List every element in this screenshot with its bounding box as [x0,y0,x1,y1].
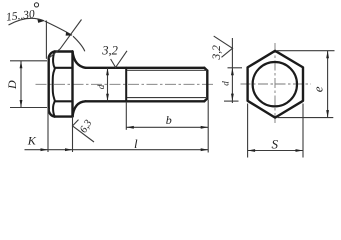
svg-text:d: d [221,81,231,86]
svg-text:d: d [96,84,106,89]
svg-text:3,2: 3,2 [101,44,118,58]
svg-text:S: S [272,136,279,151]
svg-text:15..30: 15..30 [5,8,35,23]
svg-text:b: b [166,113,172,127]
svg-text:l: l [134,136,138,151]
svg-text:3,2: 3,2 [211,45,223,61]
svg-text:D: D [5,80,19,90]
svg-text:e: e [311,86,326,92]
svg-text:K: K [27,134,37,148]
